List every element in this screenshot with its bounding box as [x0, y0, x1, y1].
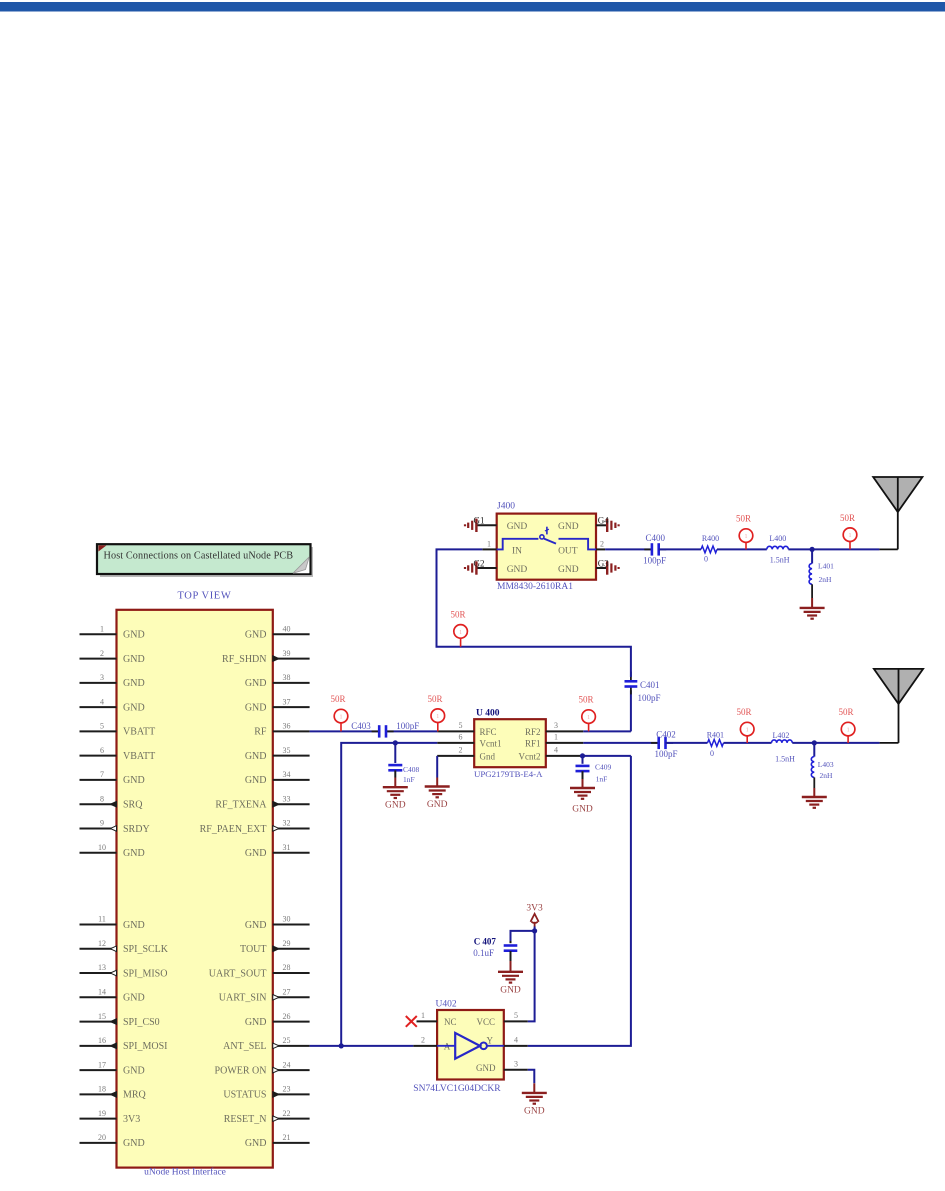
svg-text:GND: GND — [245, 678, 267, 689]
svg-text:1nF: 1nF — [403, 775, 415, 784]
svg-text:1: 1 — [100, 625, 104, 634]
svg-text:26: 26 — [283, 1012, 291, 1021]
svg-text:4: 4 — [100, 697, 104, 706]
svg-text:2nH: 2nH — [819, 575, 833, 584]
svg-text:Y: Y — [487, 1035, 494, 1045]
svg-text:2: 2 — [459, 745, 463, 754]
svg-text:100pF: 100pF — [643, 555, 666, 565]
svg-text:C409: C409 — [595, 762, 612, 771]
svg-text:GND: GND — [245, 920, 267, 931]
svg-text:50R: 50R — [736, 707, 751, 717]
svg-text:L401: L401 — [818, 561, 834, 570]
svg-text:USTATUS: USTATUS — [223, 1090, 266, 1101]
svg-text:50R: 50R — [840, 513, 855, 523]
svg-text:GND: GND — [500, 985, 521, 995]
svg-text:MM8430-2610RA1: MM8430-2610RA1 — [497, 582, 573, 592]
svg-text:C402: C402 — [656, 729, 676, 739]
svg-text:SN74LVC1G04DCKR: SN74LVC1G04DCKR — [413, 1084, 501, 1094]
svg-text:31: 31 — [283, 843, 291, 852]
svg-text:8: 8 — [100, 794, 104, 803]
svg-text:5: 5 — [514, 1011, 518, 1020]
svg-text:14: 14 — [98, 988, 106, 997]
svg-text:50R: 50R — [578, 695, 593, 705]
svg-text:GND: GND — [507, 522, 528, 532]
svg-text:100pF: 100pF — [654, 749, 677, 759]
svg-text:2: 2 — [421, 1035, 425, 1044]
svg-text:L400: L400 — [769, 534, 786, 543]
svg-text:27: 27 — [283, 988, 291, 997]
svg-text:GND: GND — [245, 1017, 267, 1028]
svg-text:13: 13 — [98, 963, 106, 972]
svg-text:U 400: U 400 — [476, 708, 500, 718]
svg-text:G1: G1 — [474, 516, 485, 526]
svg-text:25: 25 — [283, 1036, 291, 1045]
svg-text:GND: GND — [524, 1106, 545, 1116]
svg-text:R401: R401 — [707, 730, 724, 739]
svg-text:20: 20 — [98, 1133, 106, 1142]
svg-text:RFC: RFC — [480, 727, 497, 737]
svg-text:C 407: C 407 — [474, 937, 497, 947]
svg-text:50R: 50R — [427, 694, 442, 704]
svg-text:GND: GND — [123, 1138, 145, 1149]
svg-text:50R: 50R — [838, 707, 853, 717]
svg-text:40: 40 — [283, 625, 291, 634]
svg-text:1: 1 — [554, 732, 558, 741]
svg-text:30: 30 — [283, 915, 291, 924]
svg-text:5: 5 — [100, 722, 104, 731]
svg-text:7: 7 — [100, 770, 104, 779]
svg-text:RF1: RF1 — [525, 738, 541, 748]
svg-text:RF2: RF2 — [525, 727, 541, 737]
svg-text:1: 1 — [587, 715, 590, 721]
svg-text:SPI_MISO: SPI_MISO — [123, 968, 167, 979]
svg-text:37: 37 — [283, 697, 291, 706]
svg-text:34: 34 — [283, 770, 291, 779]
svg-text:6: 6 — [100, 746, 104, 755]
svg-text:UPG2179TB-E4-A: UPG2179TB-E4-A — [474, 769, 543, 779]
svg-text:L403: L403 — [818, 760, 834, 769]
svg-text:GND: GND — [245, 1138, 267, 1149]
svg-text:39: 39 — [283, 649, 291, 658]
svg-text:4: 4 — [514, 1035, 518, 1044]
svg-text:MRQ: MRQ — [123, 1090, 147, 1101]
svg-text:1: 1 — [849, 533, 852, 539]
svg-text:U402: U402 — [436, 999, 457, 1009]
svg-text:18: 18 — [98, 1085, 106, 1094]
svg-text:GND: GND — [572, 805, 593, 815]
svg-text:Vcnt2: Vcnt2 — [519, 751, 541, 761]
svg-text:GND: GND — [123, 654, 145, 665]
svg-text:1.5nH: 1.5nH — [770, 556, 790, 565]
svg-text:G3: G3 — [598, 558, 609, 568]
svg-text:1: 1 — [746, 728, 749, 734]
svg-text:GND: GND — [476, 1063, 496, 1073]
svg-text:24: 24 — [283, 1060, 291, 1069]
svg-text:100pF: 100pF — [638, 693, 661, 703]
svg-text:100pF: 100pF — [396, 721, 419, 731]
svg-text:GND: GND — [123, 775, 145, 786]
svg-text:12: 12 — [98, 939, 106, 948]
svg-text:C408: C408 — [403, 765, 420, 774]
svg-text:POWER ON: POWER ON — [215, 1065, 267, 1076]
svg-text:GND: GND — [123, 1065, 145, 1076]
svg-text:3: 3 — [100, 673, 104, 682]
svg-text:RF_PAEN_EXT: RF_PAEN_EXT — [200, 824, 267, 835]
svg-text:36: 36 — [283, 722, 291, 731]
svg-text:VBATT: VBATT — [123, 751, 155, 762]
svg-text:GND: GND — [385, 801, 406, 811]
svg-text:GND: GND — [123, 920, 145, 931]
svg-text:1nF: 1nF — [596, 775, 608, 784]
svg-text:6: 6 — [459, 732, 463, 741]
svg-text:TOUT: TOUT — [240, 944, 266, 955]
svg-text:L402: L402 — [772, 731, 789, 740]
svg-text:RF: RF — [254, 727, 267, 738]
svg-text:G2: G2 — [474, 558, 485, 568]
svg-text:ANT_SEL: ANT_SEL — [223, 1041, 266, 1052]
svg-text:17: 17 — [98, 1060, 106, 1069]
svg-text:50R: 50R — [736, 514, 751, 524]
svg-text:GND: GND — [123, 630, 145, 641]
svg-text:RF_SHDN: RF_SHDN — [222, 654, 266, 665]
svg-text:GND: GND — [558, 522, 579, 532]
svg-text:32: 32 — [283, 819, 291, 828]
svg-text:uNode Host Interface: uNode Host Interface — [144, 1167, 226, 1178]
svg-text:GND: GND — [123, 678, 145, 689]
svg-text:1: 1 — [340, 715, 343, 721]
svg-text:15: 15 — [98, 1012, 106, 1021]
svg-text:0.1uF: 0.1uF — [473, 948, 494, 958]
svg-text:TOP VIEW: TOP VIEW — [177, 591, 231, 602]
svg-text:38: 38 — [283, 673, 291, 682]
svg-text:10: 10 — [98, 843, 106, 852]
svg-text:UART_SIN: UART_SIN — [219, 993, 267, 1004]
svg-text:GND: GND — [427, 800, 448, 810]
svg-text:SPI_MOSI: SPI_MOSI — [123, 1041, 167, 1052]
svg-text:GND: GND — [558, 565, 579, 575]
svg-text:SRDY: SRDY — [123, 824, 150, 835]
svg-text:3: 3 — [554, 721, 558, 730]
svg-text:C400: C400 — [645, 533, 665, 543]
svg-text:C401: C401 — [640, 680, 660, 690]
svg-text:3V3: 3V3 — [526, 904, 543, 914]
svg-text:5: 5 — [459, 721, 463, 730]
svg-text:28: 28 — [283, 963, 291, 972]
svg-text:1: 1 — [436, 714, 439, 720]
svg-text:4: 4 — [554, 745, 558, 754]
svg-text:Vcnt1: Vcnt1 — [480, 738, 502, 748]
svg-text:GND: GND — [123, 848, 145, 859]
svg-text:G4: G4 — [598, 516, 609, 526]
svg-text:1: 1 — [487, 539, 491, 548]
svg-text:GND: GND — [245, 775, 267, 786]
svg-text:OUT: OUT — [558, 546, 578, 556]
svg-text:2nH: 2nH — [820, 771, 834, 780]
svg-text:3V3: 3V3 — [123, 1114, 140, 1125]
svg-text:VCC: VCC — [476, 1017, 495, 1027]
svg-text:16: 16 — [98, 1036, 106, 1045]
svg-text:22: 22 — [283, 1109, 291, 1118]
svg-text:GND: GND — [245, 848, 267, 859]
svg-text:RESET_N: RESET_N — [224, 1114, 267, 1125]
svg-text:SRQ: SRQ — [123, 799, 143, 810]
svg-text:R400: R400 — [702, 534, 719, 543]
svg-text:1: 1 — [847, 728, 850, 734]
svg-text:35: 35 — [283, 746, 291, 755]
svg-text:GND: GND — [245, 702, 267, 713]
svg-text:1: 1 — [421, 1011, 425, 1020]
svg-text:J400: J400 — [497, 502, 515, 512]
svg-text:3: 3 — [514, 1059, 518, 1068]
svg-text:NC: NC — [444, 1017, 457, 1027]
svg-text:SPI_CS0: SPI_CS0 — [123, 1017, 160, 1028]
svg-text:GND: GND — [245, 751, 267, 762]
svg-text:0: 0 — [704, 555, 708, 564]
svg-text:1.5nH: 1.5nH — [775, 754, 795, 763]
svg-text:Gnd: Gnd — [480, 751, 496, 761]
svg-text:9: 9 — [100, 819, 104, 828]
svg-text:33: 33 — [283, 794, 291, 803]
svg-text:1: 1 — [459, 630, 462, 636]
svg-text:11: 11 — [98, 915, 106, 924]
svg-text:RF_TXENA: RF_TXENA — [215, 799, 267, 810]
svg-text:GND: GND — [507, 565, 528, 575]
svg-text:SPI_SCLK: SPI_SCLK — [123, 944, 169, 955]
svg-text:19: 19 — [98, 1109, 106, 1118]
svg-text:1: 1 — [745, 534, 748, 540]
svg-text:2: 2 — [600, 539, 604, 548]
svg-text:Host Connections on Castellate: Host Connections on Castellated uNode PC… — [104, 551, 294, 562]
svg-text:VBATT: VBATT — [123, 727, 155, 738]
svg-text:0: 0 — [710, 749, 714, 758]
svg-text:50R: 50R — [450, 610, 465, 620]
svg-text:GND: GND — [123, 993, 145, 1004]
svg-text:UART_SOUT: UART_SOUT — [209, 968, 267, 979]
svg-text:23: 23 — [283, 1085, 291, 1094]
svg-text:GND: GND — [245, 630, 267, 641]
svg-text:50R: 50R — [330, 694, 345, 704]
svg-text:C403: C403 — [351, 721, 371, 731]
svg-text:2: 2 — [100, 649, 104, 658]
svg-text:GND: GND — [123, 702, 145, 713]
svg-text:21: 21 — [283, 1133, 291, 1142]
svg-text:29: 29 — [283, 939, 291, 948]
svg-text:IN: IN — [512, 546, 522, 556]
